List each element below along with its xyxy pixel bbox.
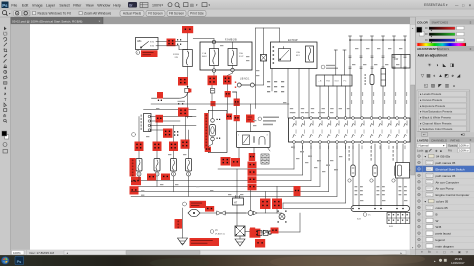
label <box>393 146 394 149</box>
svg-text:Help: Help <box>113 3 121 7</box>
connector (highlighted) <box>157 92 163 99</box>
pin dots <box>217 119 218 120</box>
svg-text:colors 05: colors 05 <box>436 200 449 204</box>
wire label <box>347 108 350 109</box>
wire <box>233 91 237 93</box>
svg-text:parts layout: parts layout <box>436 232 452 236</box>
wire label <box>360 200 363 201</box>
ECU pin arrow <box>293 124 296 127</box>
ECU pin arrow <box>319 124 322 127</box>
svg-text:ESSENTIALS: ESSENTIALS <box>424 3 446 7</box>
connector (highlighted) <box>205 206 214 212</box>
connector (circled) <box>132 133 136 137</box>
ECU pin arrow <box>301 124 304 127</box>
svg-text:≡: ≡ <box>470 47 472 51</box>
svg-text:Doc: 17.8M/35.1M: Doc: 17.8M/35.1M <box>30 251 55 255</box>
wire label <box>339 156 342 157</box>
pin name label <box>381 121 384 126</box>
relay connector (highlighted) <box>272 199 282 210</box>
resistor R2 (gauge) <box>381 69 386 87</box>
svg-text:▣: ▣ <box>458 250 461 254</box>
ECU bottom pin (circled) <box>344 141 347 144</box>
label (meter gauge) <box>365 74 366 76</box>
svg-text:05-02.psd @ 100% (Electrical S: 05-02.psd @ 100% (Electrical Start Switc… <box>12 19 82 23</box>
pin name label <box>354 121 357 126</box>
injector connector (highlighted) <box>147 174 156 181</box>
wire <box>276 186 278 198</box>
windows taskbar <box>0 255 474 266</box>
battery feed connector B1 (highlighted) <box>182 26 193 33</box>
relay K1 <box>279 47 291 62</box>
wire label <box>292 112 295 113</box>
svg-text:Electrical Start Switch: Electrical Start Switch <box>436 167 465 171</box>
pin label <box>301 146 304 150</box>
wire <box>250 190 252 210</box>
splice connector C4 <box>185 88 189 92</box>
wire label <box>253 120 256 121</box>
svg-text:Edit: Edit <box>22 3 28 7</box>
svg-text:Add an adjustment: Add an adjustment <box>418 54 449 58</box>
ECU pin connector (circled) <box>301 117 304 120</box>
pin name label <box>390 121 393 126</box>
color panel <box>416 19 474 24</box>
wire <box>138 176 140 181</box>
sensor terminal (circled) <box>348 179 351 182</box>
pin label <box>387 146 390 150</box>
connector (circled) <box>212 110 214 118</box>
label <box>349 146 350 149</box>
ECU bottom pin (circled) <box>319 141 322 144</box>
pin label <box>404 146 407 150</box>
pin label <box>370 146 373 150</box>
relay output connector (highlighted) <box>205 147 211 152</box>
starter label (highlighted) <box>246 115 255 123</box>
svg-text:◕: ◕ <box>451 73 454 78</box>
svg-text:◨: ◨ <box>450 62 455 67</box>
bus wire drop <box>360 36 362 118</box>
pin label <box>293 146 296 150</box>
ECU pin connector (circled) <box>404 117 407 120</box>
ECU pin connector (circled) <box>327 117 330 120</box>
wire <box>131 191 139 193</box>
svg-text:main diagram: main diagram <box>436 244 455 248</box>
wire <box>188 149 190 159</box>
wire label <box>317 160 321 161</box>
svg-text:Opacity:: Opacity: <box>448 144 458 148</box>
pin dots <box>158 100 159 101</box>
ECU bottom pin (circled) <box>293 141 296 144</box>
wire label <box>374 64 377 65</box>
svg-text:(P-ANS 2): (P-ANS 2) <box>215 233 225 236</box>
connector C3 (circled) <box>212 40 215 43</box>
svg-text:legend: legend <box>436 238 445 242</box>
wire <box>336 86 338 118</box>
pin label <box>310 146 313 150</box>
svg-text:path names 05: path names 05 <box>436 161 456 165</box>
ECU pin arrow <box>388 124 391 127</box>
svg-text:Actual Pixels: Actual Pixels <box>123 12 142 16</box>
wire <box>298 69 300 119</box>
connector (highlighted) <box>234 99 240 107</box>
wire pair bracket col4 <box>186 116 193 118</box>
injector terminal 4 (circled) <box>187 172 191 176</box>
ECU pin connector (circled) <box>370 117 373 120</box>
igniter HT <box>233 196 244 206</box>
canvas pasteboard <box>11 24 411 250</box>
svg-text:▨: ▨ <box>431 83 436 88</box>
wire label <box>326 165 330 166</box>
wire (ECU harness run) <box>328 144 330 192</box>
connector (highlighted) <box>255 239 265 248</box>
svg-text:Fill:: Fill: <box>448 149 452 153</box>
ignition switch SW1 <box>136 38 159 50</box>
svg-text:File: File <box>11 3 17 7</box>
dots <box>131 181 132 182</box>
connector C8 (highlighted) <box>223 76 232 85</box>
ECU bottom pin (circled) <box>352 141 355 144</box>
svg-text:SCO: SCO <box>335 81 340 83</box>
svg-text:Fill Screen: Fill Screen <box>169 12 184 16</box>
ECU pin arrow <box>310 124 313 127</box>
wire <box>287 69 289 119</box>
injector terminal 1 (circled) <box>137 172 141 176</box>
connector (highlighted) <box>163 129 173 138</box>
svg-text:■: ■ <box>440 149 442 153</box>
wire label <box>283 102 286 103</box>
wire label <box>399 48 402 49</box>
svg-text:B: B <box>436 212 438 216</box>
shielded cable bus <box>351 206 410 212</box>
wire <box>156 176 158 186</box>
ECU bottom pin (circled) <box>327 141 330 144</box>
wire label <box>330 160 333 161</box>
valve V2 (circled) <box>248 211 253 216</box>
svg-text:View: View <box>86 3 94 7</box>
wire label <box>404 200 407 201</box>
wire label <box>305 162 308 163</box>
svg-text:▤: ▤ <box>190 2 194 7</box>
canvas vertical scrollbar <box>410 24 416 250</box>
wire <box>271 69 273 92</box>
bus wire drop <box>344 50 346 75</box>
svg-text:100%: 100% <box>459 144 467 148</box>
svg-text:LAYERS: LAYERS <box>417 138 429 142</box>
wire label <box>355 48 358 49</box>
ECU pin arrow <box>404 124 407 127</box>
svg-text:▸ Black & White Presets: ▸ Black & White Presets <box>420 115 451 119</box>
ECU pin connector (circled) <box>396 117 399 120</box>
injector 1 <box>136 159 142 172</box>
ECU pin arrow <box>396 124 399 127</box>
sensor VTA <box>395 165 399 177</box>
terminal (circled) <box>269 232 272 235</box>
resistor R1 (meter) <box>370 75 374 85</box>
ECU pin connector (circled) <box>336 117 339 120</box>
svg-text:◒: ◒ <box>453 83 456 88</box>
label <box>371 146 372 149</box>
svg-text:◑: ◑ <box>436 62 439 67</box>
wire color labels <box>267 81 270 82</box>
wire label <box>168 154 171 155</box>
ignition switch label (highlighted) <box>141 50 158 57</box>
injector terminal 3 (circled) <box>172 172 176 176</box>
wire (ECU harness run) <box>345 144 347 203</box>
wire <box>212 141 214 144</box>
sensor THW <box>351 165 355 177</box>
wire label <box>311 112 314 113</box>
wire <box>236 205 238 226</box>
wire <box>328 86 330 118</box>
wire label <box>305 112 308 113</box>
fuse F1 5A <box>202 49 219 66</box>
svg-text:▲: ▲ <box>438 73 443 78</box>
wire <box>396 144 398 206</box>
svg-text:Air con Pump: Air con Pump <box>436 187 454 191</box>
injector 3 <box>171 159 177 172</box>
wire label <box>318 112 321 113</box>
wire <box>239 236 241 239</box>
wire label <box>300 151 304 152</box>
wire <box>282 203 284 209</box>
injector connector (highlighted) <box>161 174 170 181</box>
ECU bottom pin (circled) <box>301 141 304 144</box>
taskbar photoshop icon <box>15 256 24 265</box>
wire <box>156 121 158 142</box>
connector (highlighted) <box>248 176 257 183</box>
pin name label <box>312 121 315 126</box>
connector (highlighted) <box>226 114 232 120</box>
white document page <box>30 24 410 250</box>
idle control valve ISCV <box>396 163 410 179</box>
svg-text:14/06/2017: 14/06/2017 <box>451 261 465 265</box>
document tab bar <box>11 17 411 24</box>
wire label <box>322 112 325 113</box>
wire <box>308 69 310 119</box>
svg-text:▥: ▥ <box>445 83 450 88</box>
sensor THA <box>373 165 377 177</box>
EFI main relay box EC791P <box>271 38 318 69</box>
wire <box>232 42 234 49</box>
svg-text:Fit Screen: Fit Screen <box>148 12 163 16</box>
bus wire drop <box>382 36 384 118</box>
wire (ECU harness run) <box>302 144 304 175</box>
svg-text:▢: ▢ <box>443 250 446 254</box>
wire label <box>330 112 333 113</box>
svg-text:Lock:: Lock: <box>417 149 424 153</box>
wire label <box>388 48 391 49</box>
harness connector (highlighted) <box>130 186 139 194</box>
wire label <box>160 184 163 185</box>
pin name label <box>346 121 349 126</box>
ECU pin connector (circled) <box>361 117 364 120</box>
wire <box>173 126 175 142</box>
wire label <box>396 64 399 65</box>
ECU bottom pin (circled) <box>379 141 382 144</box>
relay label (highlighted) <box>130 158 136 177</box>
svg-text:◐: ◐ <box>433 73 436 78</box>
svg-text:F2/FB: F2/FB <box>173 54 179 56</box>
wire label <box>246 56 249 57</box>
svg-text:100%: 100% <box>13 251 21 255</box>
connector C9 (circled) <box>321 65 325 69</box>
svg-text:Filter: Filter <box>73 3 82 7</box>
svg-text:T: T <box>4 97 7 102</box>
svg-text:2/B: 2/B <box>175 57 179 59</box>
wire label <box>196 186 199 187</box>
wire <box>263 28 265 55</box>
junction dots <box>174 131 175 132</box>
svg-text:◱: ◱ <box>424 83 429 88</box>
wire <box>138 151 140 159</box>
svg-text:≡: ≡ <box>470 20 472 24</box>
svg-text:I/C: I/C <box>368 215 371 217</box>
svg-text:04 GB 05s: 04 GB 05s <box>436 155 451 159</box>
ECU pin arrow <box>336 124 339 127</box>
connector (highlighted) <box>221 157 231 166</box>
connector terminal 1 (circled) <box>136 51 140 55</box>
wire label <box>290 112 293 113</box>
wire <box>409 169 412 171</box>
bus wire drop <box>349 36 351 118</box>
wire <box>225 212 248 214</box>
wire label <box>385 64 388 65</box>
main relay label (highlighted) <box>204 113 208 149</box>
pin label <box>361 146 364 150</box>
svg-text:⚭: ⚭ <box>421 250 424 254</box>
svg-text:▦: ▦ <box>425 149 428 153</box>
svg-text:✕: ✕ <box>469 3 472 7</box>
svg-text:L/B NO.1: L/B NO.1 <box>240 78 250 80</box>
svg-text:▸ Channel Mixer Presets: ▸ Channel Mixer Presets <box>420 121 452 125</box>
connector (highlighted) <box>178 77 188 86</box>
bus wire drop <box>393 36 395 118</box>
pin name label <box>329 121 332 126</box>
label starter relay (Japanese) <box>263 117 279 119</box>
wire label <box>141 190 144 191</box>
layers panel footer <box>416 249 474 255</box>
svg-text:COLOR: COLOR <box>417 21 429 25</box>
splice connector <box>210 89 215 94</box>
svg-text:AB1: AB1 <box>137 40 142 43</box>
wire label <box>363 64 366 65</box>
wire label <box>220 45 223 46</box>
start orb <box>1 256 9 264</box>
connector C2 (highlighted) <box>167 39 176 47</box>
connector note (circled, key cylinder) <box>258 117 262 121</box>
pin label <box>396 146 399 150</box>
wire <box>158 41 167 43</box>
ECU pin connector (circled) <box>352 117 355 120</box>
wire <box>402 144 404 206</box>
pin label <box>336 146 339 150</box>
pin label <box>327 146 330 150</box>
injector 4 <box>186 159 192 172</box>
connector (highlighted) <box>225 91 231 97</box>
svg-text:Image: Image <box>32 3 42 7</box>
wire <box>187 93 189 110</box>
wire <box>144 109 197 111</box>
svg-text:▸ Curves Presets: ▸ Curves Presets <box>420 98 443 102</box>
note I/C (circled) <box>210 230 214 234</box>
connector pinout table <box>387 213 410 229</box>
wire <box>253 148 255 155</box>
connector S (circled) <box>183 202 187 206</box>
svg-text:Layer: Layer <box>46 3 56 7</box>
injector connector 2 (highlighted) <box>153 142 162 152</box>
ECU bottom pin (circled) <box>396 141 399 144</box>
svg-text:▸ Selective Color Presets: ▸ Selective Color Presets <box>420 127 453 131</box>
connector (highlighted) <box>248 162 257 169</box>
wire label <box>256 75 259 76</box>
wire <box>182 208 184 238</box>
wire label <box>290 108 293 109</box>
wire <box>271 231 300 233</box>
wire <box>151 129 172 131</box>
wire <box>156 151 158 159</box>
sensor terminal (circled) <box>392 179 395 182</box>
svg-text:B-B: B-B <box>357 219 361 221</box>
connector C5 (circled) <box>213 66 215 76</box>
wire <box>200 212 246 214</box>
wire <box>236 106 238 115</box>
svg-text:colors 05: colors 05 <box>436 206 449 210</box>
wire <box>187 67 189 89</box>
svg-text:F/LP: F/LP <box>239 56 244 58</box>
wire (ECU harness run) <box>319 144 321 186</box>
svg-text:▸: ▸ <box>468 145 469 148</box>
wire <box>245 231 250 233</box>
ECU pin arrow <box>344 124 347 127</box>
wire <box>254 84 263 86</box>
valve V3 <box>264 230 271 234</box>
svg-text:◩: ◩ <box>444 73 449 78</box>
svg-text:○: ○ <box>436 250 438 254</box>
connector note B11 (circled) <box>363 213 367 217</box>
ECU pin connector (circled) <box>388 117 391 120</box>
injector connector 4 (highlighted) <box>181 140 190 149</box>
wire <box>345 86 347 118</box>
wire <box>276 209 278 213</box>
wire label (highlighted) <box>190 201 207 208</box>
svg-text:100%: 100% <box>459 149 467 153</box>
wire <box>265 209 267 213</box>
injector terminal 2 (circled) <box>155 172 159 176</box>
connector (highlighted) <box>156 115 164 123</box>
svg-text:100%: 100% <box>152 3 162 7</box>
wire <box>193 38 214 40</box>
connector C7 (highlighted) <box>208 76 218 86</box>
wire (ECU harness run) <box>293 144 295 169</box>
svg-text:Engine Control Computer: Engine Control Computer <box>436 193 470 197</box>
wire <box>151 125 196 127</box>
wire <box>158 45 179 47</box>
wire label <box>141 195 144 196</box>
svg-text:fx: fx <box>428 250 431 254</box>
svg-text:Zoom All Windows: Zoom All Windows <box>84 11 111 15</box>
starter cut relay K2 <box>237 132 271 148</box>
fusible link F/L MAIN <box>173 50 192 67</box>
wire (STA signal) <box>151 103 289 105</box>
svg-text:W-B: W-B <box>436 225 442 229</box>
connector (highlighted) <box>231 158 240 167</box>
svg-text:×: × <box>99 19 101 23</box>
svg-text:SWATCHES: SWATCHES <box>432 21 449 25</box>
wire <box>188 176 190 196</box>
diode D1 <box>258 231 263 236</box>
svg-text:Ps: Ps <box>2 3 8 8</box>
wire <box>236 121 238 131</box>
wire label (M/T) <box>178 101 186 102</box>
